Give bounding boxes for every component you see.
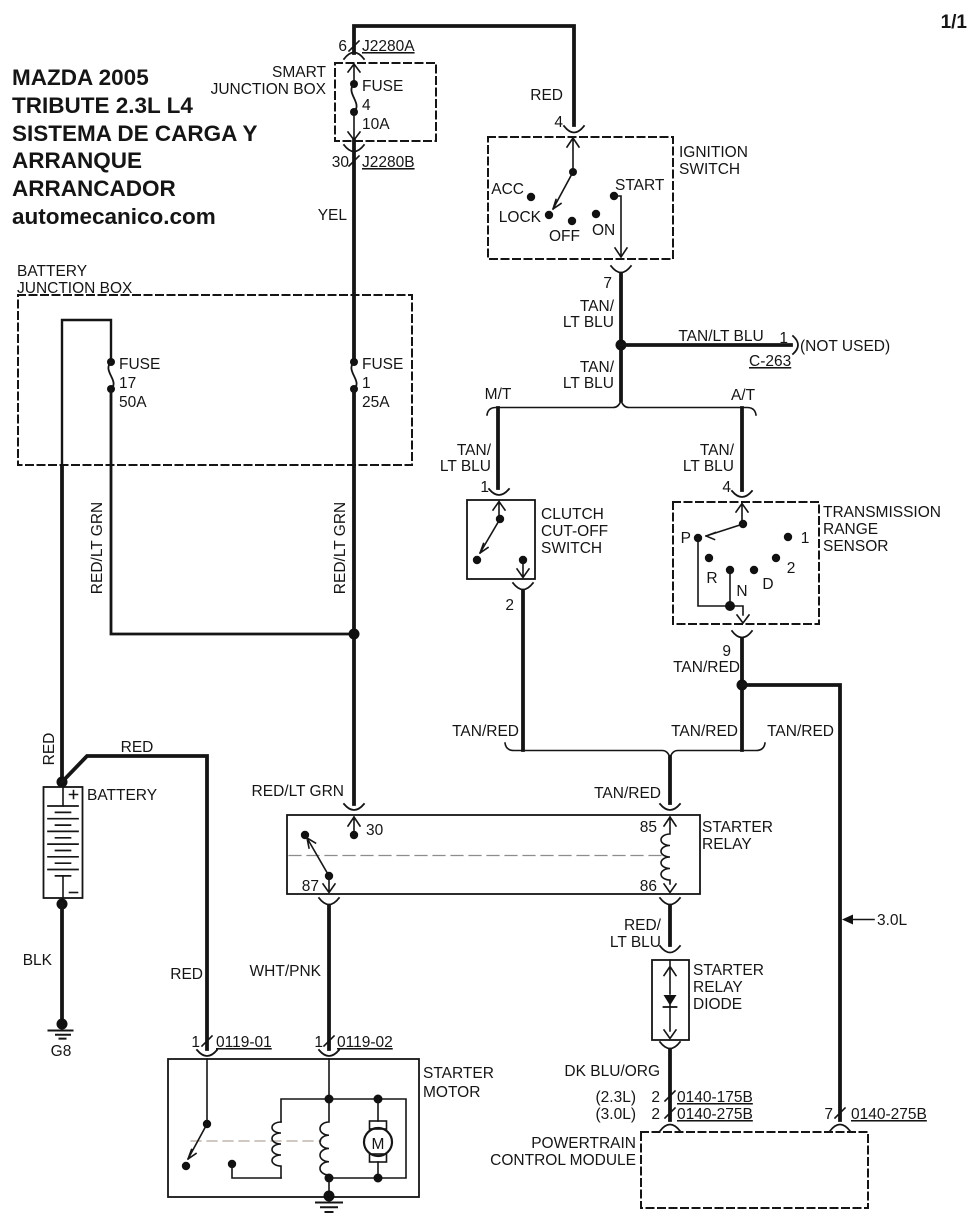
svg-text:TAN/: TAN/ [580, 359, 615, 376]
svg-text:TAN/: TAN/ [457, 442, 492, 459]
connector 0119-01 pin 1 [191, 1034, 271, 1051]
node battery positive [57, 777, 68, 788]
svg-text:N: N [736, 583, 747, 600]
connector 0119-02 pin 1 [314, 1034, 392, 1051]
diode exit arrow [664, 1005, 676, 1039]
svg-text:(3.0L): (3.0L) [596, 1106, 637, 1123]
wire YEL from J2280B to fuse 1 [352, 141, 356, 362]
svg-text:1: 1 [801, 530, 810, 547]
starter motor label [423, 1065, 494, 1101]
wire TAN/LT BLU A/T branch [740, 408, 744, 490]
starter motor hold coil input [328, 1059, 330, 1099]
ignition switch START output [614, 196, 627, 257]
connector arc PCM right [830, 1125, 850, 1132]
svg-text:DK BLU/ORG: DK BLU/ORG [564, 1063, 660, 1080]
ground G8 [57, 1019, 68, 1030]
svg-text:MAZDA 2005: MAZDA 2005 [12, 65, 149, 90]
connector J2280B pin 30 [332, 154, 415, 171]
svg-text:C-263: C-263 [749, 353, 791, 370]
svg-text:RED: RED [170, 966, 203, 983]
wire to motor ground [328, 1178, 330, 1193]
wire TAN/RED from TRS [740, 639, 744, 750]
node TAN/LT BLU junction [616, 340, 627, 351]
svg-text:1: 1 [314, 1034, 323, 1051]
connector arc TRS exit [732, 631, 752, 638]
starter motor dashed line [191, 1140, 321, 1142]
svg-text:7: 7 [824, 1106, 833, 1123]
wire RED battery feed [60, 466, 64, 782]
svg-text:4: 4 [554, 114, 563, 131]
svg-text:LT BLU: LT BLU [610, 934, 661, 951]
connector row 0140-275B left [596, 1106, 753, 1123]
svg-text:25A: 25A [362, 394, 390, 411]
TRS P output path [698, 538, 749, 623]
connector arc clutch entry [489, 489, 509, 495]
svg-text:automecanico.com: automecanico.com [12, 204, 216, 229]
wire TAN/LT BLU M/T branch [496, 408, 500, 488]
wire: top bus from fuse 4 to ignition switch [354, 26, 574, 125]
ignition switch contact dots [527, 193, 535, 201]
wire TAN/RED from clutch switch [521, 591, 525, 750]
connector J2280A pin 6 [338, 38, 415, 55]
svg-text:CUT-OFF: CUT-OFF [541, 523, 608, 540]
starter motor switch second contact [228, 1160, 236, 1168]
svg-text:FUSE: FUSE [119, 356, 160, 373]
clutch switch output contact [519, 556, 527, 564]
starter motor pull-in coil [272, 1122, 281, 1178]
svg-text:(NOT USED): (NOT USED) [800, 338, 890, 355]
svg-text:A/T: A/T [731, 387, 756, 404]
svg-text:10A: 10A [362, 116, 390, 133]
clutch switch lower contact [473, 556, 481, 564]
fuse F1 value labels [362, 356, 403, 411]
starter relay box [287, 815, 700, 894]
ignition switch pivot [569, 168, 577, 176]
transmission range sensor label [823, 504, 941, 555]
connector arc relay coil entry [660, 804, 680, 810]
label TAN/LT BLU upper [563, 298, 615, 331]
wire second contact to pull-in coil [232, 1164, 281, 1178]
svg-text:SISTEMA DE CARGA Y: SISTEMA DE CARGA Y [12, 121, 257, 146]
relay switch arm [307, 838, 329, 876]
starter motor box [168, 1059, 419, 1197]
svg-text:TAN/RED: TAN/RED [767, 723, 834, 740]
fuse F4 [350, 80, 358, 88]
svg-text:(2.3L): (2.3L) [596, 1089, 637, 1106]
svg-text:86: 86 [640, 878, 657, 895]
connector arc diode entry [660, 946, 680, 953]
relay switch lower contact [325, 872, 333, 880]
starter relay diode box [652, 960, 689, 1040]
wire DK BLU/ORG to PCM [668, 1050, 672, 1120]
svg-text:TAN/RED: TAN/RED [673, 659, 740, 676]
svg-text:30: 30 [332, 154, 350, 171]
svg-text:TAN/RED: TAN/RED [452, 723, 519, 740]
svg-text:RED: RED [121, 739, 154, 756]
connector arc relay pin30 entry [344, 804, 364, 810]
ignition switch arm to LOCK [553, 172, 573, 209]
svg-text:RED/LT GRN: RED/LT GRN [332, 502, 349, 594]
svg-text:0140-275B: 0140-275B [677, 1106, 753, 1123]
powertrain control module box [641, 1132, 868, 1208]
svg-text:BATTERY: BATTERY [17, 263, 87, 280]
clutch switch output arrow [517, 560, 529, 578]
connector tick 0140-175B [665, 1091, 675, 1101]
svg-text:SWITCH: SWITCH [679, 161, 740, 178]
svg-text:1: 1 [191, 1034, 200, 1051]
fuse F1 [350, 358, 358, 366]
svg-text:CLUTCH: CLUTCH [541, 506, 604, 523]
motor ground [324, 1191, 335, 1202]
TRS arm to P [706, 524, 743, 540]
TRS N junction dot [725, 601, 735, 611]
svg-text:STARTER: STARTER [693, 962, 764, 979]
connector C-263 arc [793, 336, 798, 354]
label RED/LT BLU [610, 917, 662, 951]
starter motor hold coil [320, 1099, 329, 1178]
battery plus sign [70, 791, 78, 799]
battery junction box [18, 295, 412, 465]
clutch cut-off switch label [541, 506, 608, 557]
connector tick 0140-275B left [665, 1108, 675, 1118]
clutch cut-off switch box [467, 500, 535, 579]
node motor top [374, 1095, 383, 1104]
svg-text:1: 1 [480, 479, 489, 496]
wire RED/LT GRN from fuse 17 down to junction [111, 389, 351, 634]
node junction fuse17/fuse1 [349, 629, 360, 640]
TRS contact P [694, 534, 702, 542]
TRS position labels [681, 530, 810, 600]
svg-text:1: 1 [779, 330, 788, 347]
connector J2280B arc [344, 145, 364, 152]
TRS pivot [739, 520, 747, 528]
svg-text:M/T: M/T [485, 386, 512, 403]
svg-text:TRANSMISSION: TRANSMISSION [823, 504, 941, 521]
starter motor solenoid input [206, 1059, 208, 1124]
svg-text:0119-02: 0119-02 [337, 1034, 393, 1051]
battery BAT [44, 787, 83, 898]
svg-text:TAN/LT BLU: TAN/LT BLU [678, 328, 763, 345]
svg-text:IGNITION: IGNITION [679, 144, 748, 161]
connector arc diode exit [660, 1042, 680, 1049]
fuse F17 [107, 358, 115, 366]
wire RED/LT BLU relay to diode [668, 906, 672, 945]
connector J2280A tick [349, 41, 359, 51]
svg-text:WHT/PNK: WHT/PNK [250, 963, 322, 980]
svg-text:LT BLU: LT BLU [683, 458, 734, 475]
relay coil 85-86 [661, 817, 676, 893]
wire to C-263 [621, 343, 791, 347]
svg-text:RED: RED [530, 87, 563, 104]
svg-text:TAN/RED: TAN/RED [594, 785, 661, 802]
svg-text:TAN/: TAN/ [580, 298, 615, 315]
starter relay dashed line [289, 855, 661, 857]
battery minus sign [70, 892, 78, 894]
wire link inside battery junction box [62, 320, 111, 465]
svg-text:0119-01: 0119-01 [216, 1034, 272, 1051]
fuse F17 value labels [119, 356, 160, 411]
diode entry arrow [664, 960, 676, 994]
svg-text:0140-175B: 0140-175B [677, 1089, 753, 1106]
svg-text:7: 7 [603, 275, 612, 292]
svg-text:SMART: SMART [272, 64, 327, 81]
svg-text:LT BLU: LT BLU [563, 314, 614, 331]
connector arc PCM left [660, 1125, 680, 1132]
clutch switch arm [480, 519, 500, 553]
connector row 0140-175B [596, 1089, 753, 1106]
svg-text:TAN/: TAN/ [700, 442, 735, 459]
svg-text:2: 2 [651, 1106, 660, 1123]
svg-text:4: 4 [362, 97, 371, 114]
svg-text:TAN/RED: TAN/RED [671, 723, 738, 740]
svg-text:RELAY: RELAY [702, 836, 752, 853]
svg-text:CONTROL MODULE: CONTROL MODULE [490, 1152, 636, 1169]
wire BLK battery to ground [60, 904, 64, 1018]
svg-text:BLK: BLK [23, 952, 53, 969]
svg-text:50A: 50A [119, 394, 147, 411]
node motor bottom [374, 1174, 383, 1183]
starter motor top bus [329, 1099, 406, 1178]
label TAN/LT BLU A/T [683, 442, 735, 475]
svg-text:9: 9 [722, 643, 731, 660]
title block [12, 65, 257, 229]
fuse F4 value labels [362, 78, 403, 133]
connector arc ignition exit [611, 266, 631, 273]
svg-text:FUSE: FUSE [362, 356, 403, 373]
wire RED/LT GRN from fuse 1 down to starter relay [352, 389, 356, 804]
svg-text:G8: G8 [51, 1043, 72, 1060]
svg-text:POWERTRAIN: POWERTRAIN [531, 1135, 636, 1152]
wire pull-in coil top to bus [281, 1099, 329, 1122]
fuse F4 exit arrow [348, 112, 360, 140]
svg-text:D: D [762, 576, 773, 593]
svg-text:P: P [681, 530, 691, 547]
connector arc relay pin87 exit [319, 898, 339, 905]
svg-text:YEL: YEL [318, 207, 348, 224]
svg-text:3.0L: 3.0L [877, 912, 908, 929]
svg-text:RED: RED [41, 733, 58, 766]
smart junction box [335, 63, 436, 141]
wire TAN/LT BLU ignition to junction [619, 274, 623, 400]
smart junction box label [211, 64, 327, 98]
starter motor switch arm [188, 1124, 207, 1159]
svg-text:SENSOR: SENSOR [823, 538, 888, 555]
svg-text:RELAY: RELAY [693, 979, 743, 996]
powertrain control module label [490, 1135, 636, 1169]
wire TAN/RED to 3.0L branch [742, 685, 840, 1120]
fuse F4 entry arrow [348, 64, 360, 84]
connector arc relay pin86 exit [660, 898, 680, 905]
connector J2280B tick [349, 156, 359, 166]
svg-text:J2280B: J2280B [362, 154, 415, 171]
svg-text:87: 87 [302, 878, 319, 895]
svg-text:ARRANCADOR: ARRANCADOR [12, 176, 176, 201]
svg-text:ARRANQUE: ARRANQUE [12, 148, 142, 173]
relay pin 30 arrow [348, 817, 360, 835]
svg-text:RED/: RED/ [624, 917, 662, 934]
connector arc clutch exit [513, 583, 533, 590]
starter relay label [702, 819, 773, 853]
svg-text:START: START [615, 177, 665, 194]
svg-text:ACC: ACC [491, 181, 524, 198]
svg-text:LT BLU: LT BLU [563, 375, 614, 392]
merge brace TAN/RED [505, 743, 765, 758]
svg-text:JUNCTION BOX: JUNCTION BOX [211, 81, 327, 98]
ignition switch label [679, 144, 748, 178]
battery plates [48, 806, 78, 876]
svg-text:FUSE: FUSE [362, 78, 403, 95]
relay pin 87 arrow [323, 876, 335, 893]
node hold coil top [325, 1095, 334, 1104]
svg-text:RANGE: RANGE [823, 521, 878, 538]
ignition switch position labels [491, 177, 665, 245]
connector row 0140-275B right [824, 1106, 926, 1123]
starter relay diode label [693, 962, 764, 1013]
battery junction box label [17, 263, 133, 297]
ignition switch box [488, 137, 673, 259]
svg-text:2: 2 [651, 1089, 660, 1106]
wire WHT/PNK relay to starter motor [327, 906, 331, 1049]
svg-text:OFF: OFF [549, 228, 580, 245]
svg-text:1: 1 [362, 375, 371, 392]
battery top stub [62, 787, 64, 806]
svg-text:RED/LT GRN: RED/LT GRN [252, 783, 344, 800]
svg-text:6: 6 [338, 38, 347, 55]
connector arc 0119-01 [197, 1050, 217, 1056]
node battery negative [57, 899, 68, 910]
svg-text:2: 2 [787, 560, 796, 577]
svg-text:4: 4 [722, 479, 731, 496]
svg-text:M: M [372, 1136, 385, 1153]
connector arc 0119-02 [319, 1050, 339, 1056]
diode D1 [664, 995, 677, 1006]
svg-text:TRIBUTE 2.3L L4: TRIBUTE 2.3L L4 [12, 93, 193, 118]
connector 0119-01 tick [202, 1036, 212, 1046]
battery bottom stub [62, 876, 64, 898]
svg-text:1/1: 1/1 [941, 12, 968, 33]
label TAN/LT BLU lower [563, 359, 615, 392]
svg-text:85: 85 [640, 819, 657, 836]
svg-text:DIODE: DIODE [693, 996, 742, 1013]
svg-text:ON: ON [592, 222, 615, 239]
svg-text:J2280A: J2280A [362, 38, 415, 55]
connector arc ignition entry [564, 126, 584, 133]
svg-text:0140-275B: 0140-275B [851, 1106, 927, 1123]
TRS entry arrow [736, 504, 748, 525]
svg-text:RED/LT GRN: RED/LT GRN [89, 502, 106, 594]
svg-text:LOCK: LOCK [499, 209, 542, 226]
node TAN/RED junction [737, 680, 748, 691]
wire RED battery to starter motor [62, 756, 207, 1049]
clutch switch pivot [496, 515, 504, 523]
connector J2280A arc [344, 53, 364, 60]
wire TAN/RED to starter relay [668, 757, 672, 803]
node hold coil bottom [325, 1174, 334, 1183]
svg-text:STARTER: STARTER [702, 819, 773, 836]
connector 0119-02 tick [324, 1036, 334, 1046]
svg-text:2: 2 [505, 597, 514, 614]
svg-text:MOTOR: MOTOR [423, 1084, 480, 1101]
relay pin 30 dot [350, 831, 358, 839]
label TAN/LT BLU M/T [440, 442, 492, 475]
svg-text:17: 17 [119, 375, 136, 392]
svg-text:SWITCH: SWITCH [541, 540, 602, 557]
svg-text:R: R [706, 570, 717, 587]
starter motor switch pivot [203, 1120, 211, 1128]
split brace M/T A/T [487, 400, 756, 415]
TRS contact dots R N D 2 1 [705, 554, 713, 562]
ignition switch entry arrow [567, 138, 579, 172]
svg-text:BATTERY: BATTERY [87, 787, 157, 804]
relay switch upper contact [301, 831, 309, 839]
connector arc TRS entry [732, 491, 752, 497]
svg-text:STARTER: STARTER [423, 1065, 494, 1082]
motor M1 [377, 1099, 379, 1121]
starter motor switch lower contact [182, 1162, 190, 1170]
clutch switch entry arrow [493, 502, 505, 520]
connector tick 0140-275B right [835, 1108, 845, 1118]
svg-text:LT BLU: LT BLU [440, 458, 491, 475]
svg-text:30: 30 [366, 822, 384, 839]
transmission range sensor box [673, 502, 819, 624]
